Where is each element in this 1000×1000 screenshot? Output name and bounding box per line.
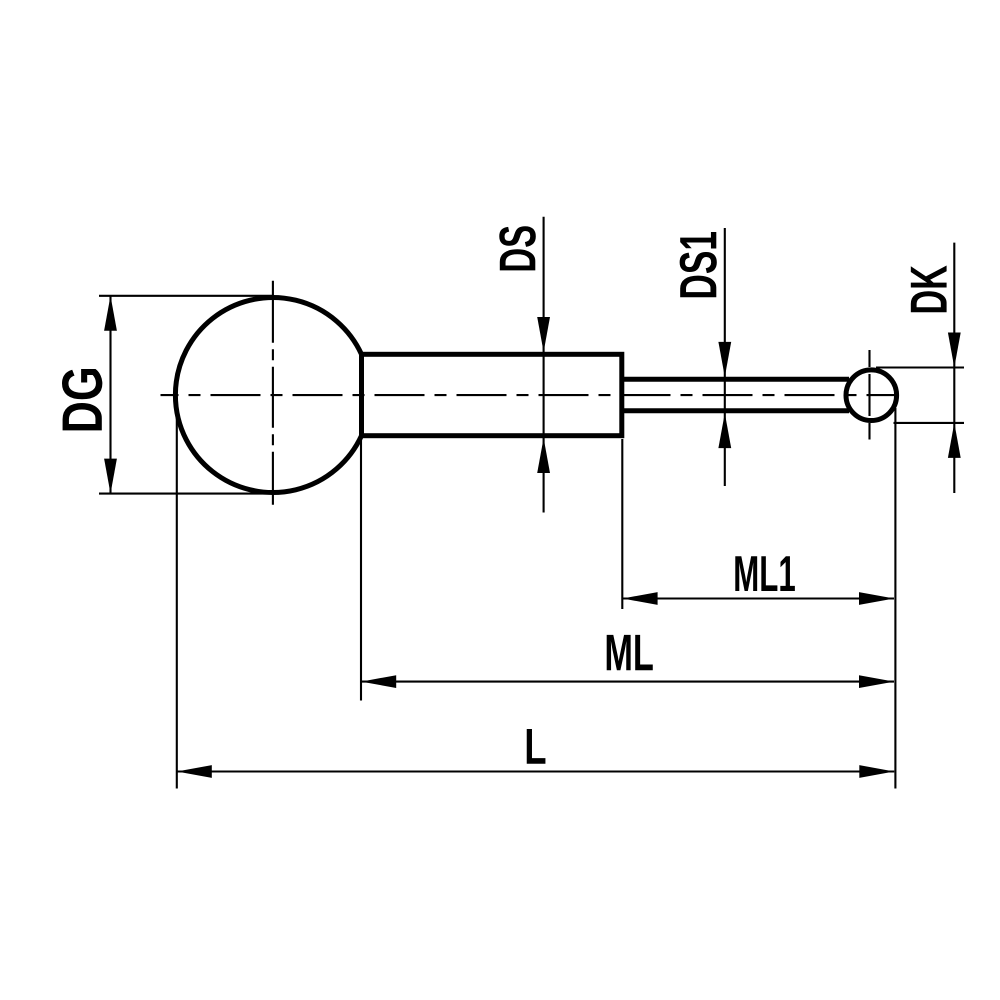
ML1 dimension line [623,597,894,599]
DS arrowhead up [537,438,550,473]
ML left extension line [360,438,362,701]
L left extension line [176,403,178,789]
L right extension line [894,408,896,789]
DK bottom extension line [894,422,965,424]
ball DK outline [846,370,897,421]
label ML1 [735,556,795,591]
rod DS1 top line [622,377,849,382]
ML arrowhead right [859,675,894,688]
DG arrowhead down [104,459,117,494]
horizontal axis centerline [161,394,896,396]
DG dimension line [109,296,111,494]
DK top extension line [876,366,964,368]
DS1 arrowhead up [718,413,731,448]
DK dimension line [953,243,955,493]
ML1 left extension line [621,439,623,609]
L arrowhead left [177,765,212,778]
DK arrowhead down [948,333,961,368]
ball DG outline [175,297,361,492]
DG top extension line [99,295,274,297]
DG bottom extension line [99,493,273,495]
L dimension line [177,770,895,772]
DS1 arrowhead down [718,342,731,377]
label DG [62,369,102,430]
label DK [911,265,947,312]
ML dimension line [361,681,894,683]
DS arrowhead down [537,317,550,352]
vertical centerline of ball DK [868,350,870,440]
label DS [499,226,536,270]
ML1 arrowhead right [859,592,894,605]
label DS1 [680,232,717,297]
rod DS1 bottom line [622,408,849,413]
L arrowhead right [859,765,894,778]
label L [527,729,546,764]
DK arrowhead up [948,423,961,458]
DG arrowhead up [104,296,117,331]
ML arrowhead left [361,675,396,688]
stem cylinder DS [362,354,622,435]
label ML [607,635,653,670]
DS dimension line [543,217,545,513]
vertical centerline of ball DG [272,281,274,505]
DS1 dimension line [724,228,726,486]
ML1 arrowhead left [623,592,658,605]
